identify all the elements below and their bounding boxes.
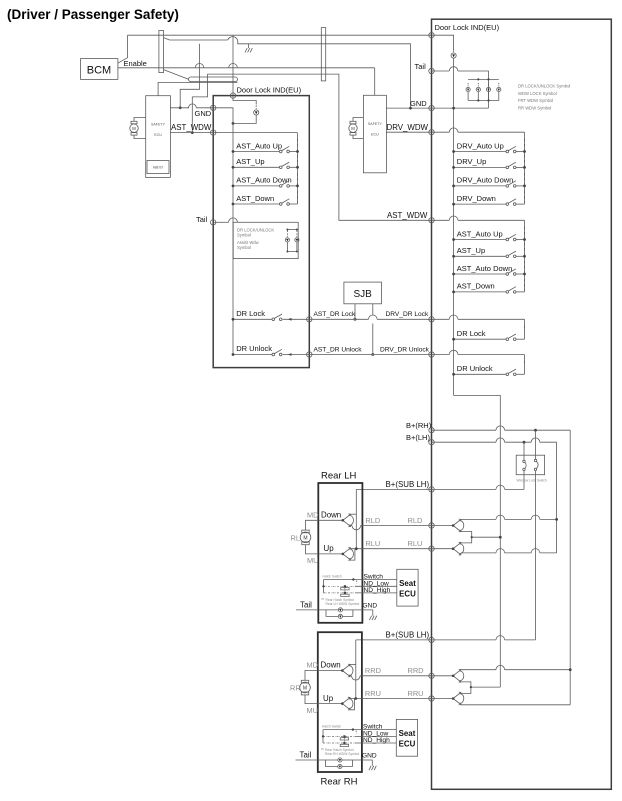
connector B+(SUB LH) first [429, 487, 434, 492]
ground G3 [369, 762, 376, 771]
switch AST_Up [279, 162, 289, 169]
wire Down row RH [318, 670, 343, 672]
svg-text:WDW LOCK Symbol: WDW LOCK Symbol [518, 91, 557, 96]
svg-text:RRD: RRD [365, 666, 381, 675]
svg-text:A88 B7: A88 B7 [153, 166, 164, 170]
switch AST_Up (right) [506, 251, 516, 257]
wire ND_High row RH [323, 742, 355, 744]
svg-text:Symbol: Symbol [237, 233, 251, 238]
detent dashes DRV bar [524, 139, 526, 203]
wire B+(LH) drop to rear LH [556, 442, 558, 553]
wire right switch bar (AST group) [297, 133, 299, 204]
wire BCM to top bus (diagonal riser) [118, 35, 128, 63]
svg-text:DR LOCK/UNLOCK Symbol: DR LOCK/UNLOCK Symbol [518, 84, 570, 89]
wire Switch row RH [323, 729, 396, 731]
svg-text:ECU: ECU [154, 133, 162, 137]
svg-text:AST_DR Lock: AST_DR Lock [314, 311, 356, 318]
svg-text:AST_Up: AST_Up [457, 246, 485, 255]
horn connector Down RH [341, 664, 353, 677]
passenger door module box (Door Lock IND EU, left) [213, 96, 309, 368]
connector RRD [429, 673, 434, 678]
wire DRV lock feed line [432, 318, 450, 320]
svg-text:B+(RH): B+(RH) [406, 421, 432, 430]
wire GND out to chassis RH [352, 760, 372, 762]
symbol lamp group bottom bar [468, 100, 499, 102]
wire Tail into symbol block [213, 221, 228, 223]
Seat ECU box LH [397, 569, 418, 606]
connector DRV_DR Unlock [429, 352, 434, 357]
svg-text:GND: GND [363, 602, 378, 609]
wire DRV unlock feed line [432, 354, 450, 356]
wire hop DRV_WDW over ground bar [449, 128, 458, 132]
svg-text:DRV_Auto Down: DRV_Auto Down [457, 176, 514, 185]
svg-text:AST_Auto Up: AST_Auto Up [457, 229, 503, 238]
wire bar to lower section [454, 395, 501, 687]
lamp tail LH 2 [338, 614, 342, 618]
horn connector Up RH [341, 697, 353, 710]
junction dot GND/line B riser [409, 107, 412, 110]
svg-text:Rear LH WDW Symbol: Rear LH WDW Symbol [326, 602, 360, 606]
svg-text:DRV_DR Lock: DRV_DR Lock [386, 311, 429, 318]
svg-text:DR Unlock: DR Unlock [236, 344, 272, 353]
svg-text:AST_DR Unlock: AST_DR Unlock [314, 346, 363, 353]
svg-text:Seat: Seat [399, 729, 416, 738]
svg-text:AST_Auto Up: AST_Auto Up [236, 141, 282, 150]
horn connector RRU [452, 692, 464, 705]
svg-text:DRV_Up: DRV_Up [457, 157, 486, 166]
wire motor up feed RH [305, 695, 318, 704]
svg-text:SJB: SJB [354, 289, 373, 300]
svg-text:Door Lock IND(EU): Door Lock IND(EU) [435, 23, 500, 32]
wire RRU from horn upper branch [350, 698, 431, 700]
svg-text:B+(LH): B+(LH) [406, 433, 430, 442]
wire GND out to chassis LH [353, 610, 373, 612]
ground G1 on line B [245, 44, 252, 53]
wire DR Lock to connector with direction arrow [283, 318, 310, 320]
connector capsule C3 (in-line connector, horizontal) [189, 77, 238, 82]
wire Up lower branch loop [351, 549, 355, 560]
svg-text:GND: GND [195, 109, 212, 118]
svg-text:Hatch Switch: Hatch Switch [322, 724, 341, 728]
safety ECU RH box [363, 95, 386, 173]
svg-text:ND_High: ND_High [364, 587, 391, 594]
horn connector Down LH [342, 514, 354, 527]
svg-text:RRU: RRU [408, 689, 424, 698]
window motor rear LH [300, 530, 311, 545]
switch DR Lock (right) [506, 334, 516, 341]
svg-text:DR Unlock: DR Unlock [457, 364, 493, 373]
connector GND right [429, 105, 434, 110]
horn connector RRD [452, 669, 464, 682]
svg-text:ND_High: ND_High [363, 737, 390, 744]
switch AST_Auto Down (right) [506, 269, 516, 276]
wire RRD into module [432, 675, 454, 677]
wire B+(LH) distribution [432, 441, 497, 443]
wire top bus line A to driver door module [128, 34, 432, 36]
wire hop Tail over ground bar [449, 67, 458, 71]
window motor M1 (driver) [130, 118, 146, 139]
wire DR Unlock row [233, 354, 272, 356]
wire Down upper branch to B+ bar RH [350, 663, 356, 665]
svg-text:(Driver / Passenger Safety): (Driver / Passenger Safety) [7, 7, 179, 22]
wire DR Unlock row (right) [454, 373, 506, 375]
wire Up row LH [318, 553, 343, 555]
wire RLD lower branch jog [461, 532, 472, 543]
switch AST_Auto Up (right) [506, 234, 516, 241]
wire hop on Enable over V1 [229, 64, 238, 68]
wire Up row RH [318, 703, 343, 705]
wire ND_Low row LH [324, 585, 356, 587]
switch DRV_Auto Down [506, 181, 516, 188]
svg-text:Down: Down [321, 510, 341, 519]
connector AST_WDW [211, 130, 216, 135]
svg-text:RRD: RRD [408, 666, 424, 675]
svg-text:Door Lock IND(EU): Door Lock IND(EU) [237, 86, 302, 95]
switch AST_Auto Down [279, 181, 289, 188]
svg-text:DRV_WDW: DRV_WDW [387, 123, 429, 132]
wire RRD from horn lower branch [350, 675, 351, 677]
connector top feed [429, 33, 434, 38]
svg-text:FRT WDW Symbol: FRT WDW Symbol [518, 98, 553, 103]
rear LH door box [318, 483, 362, 623]
connector bar C2 (in-line connector, right) [321, 28, 325, 81]
wire AST_WDW to right switch bar [213, 132, 297, 134]
switch DRV_Up [506, 162, 516, 169]
svg-text:AST_WDW: AST_WDW [387, 211, 428, 220]
detent dash unlock [524, 361, 526, 366]
connector bar C1 (in-line connector, left) [159, 31, 164, 73]
wire hop AST_WDW over ground bar [449, 216, 458, 220]
lamp FRT WDW symbol [486, 83, 490, 92]
wire rear RH B+ bar [355, 640, 357, 699]
svg-text:ECU: ECU [371, 133, 379, 137]
svg-text:Window Lock Switch: Window Lock Switch [517, 479, 547, 483]
indicator lamp L2 [451, 48, 456, 58]
wire main ground bar of driver module [432, 35, 454, 50]
svg-text:MD: MD [307, 510, 319, 519]
connector B+(SUB LH) second [429, 637, 434, 642]
svg-text:Enable: Enable [124, 59, 147, 68]
connector RRU [429, 696, 434, 701]
connector Tail [211, 220, 216, 225]
svg-text:DR Lock: DR Lock [457, 329, 486, 338]
wire lamp feed inside module [233, 96, 256, 105]
svg-text:RR: RR [290, 684, 301, 693]
wire driver ECU top feed [158, 82, 237, 95]
window lock switch box [516, 455, 544, 475]
wire AST_WDW from driver ECU [170, 132, 213, 134]
switch DRV_Auto Up [506, 146, 516, 153]
wire Enable from BCM [118, 67, 375, 69]
wire diagonal C1 to capsule C3 [164, 70, 189, 80]
svg-text:RLU: RLU [365, 539, 380, 548]
wire SJB unlock pin [372, 304, 374, 315]
svg-text:Down: Down [321, 661, 341, 670]
wire Switch row LH [324, 579, 397, 581]
wire DRV_WDW internal to switch bar [432, 131, 450, 133]
wire Down upper branch to B+ bar [351, 513, 357, 515]
wire RRD lower branch jog [461, 682, 471, 694]
wire RLD into module [432, 525, 454, 527]
wire motor down feed LH [306, 520, 319, 530]
wire bus line B from connector C1 [164, 38, 228, 40]
wire GND from passenger ECU to driver door module [386, 107, 431, 109]
window motor M2 (passenger) [349, 118, 364, 139]
connector RLD [429, 523, 434, 528]
svg-text:AST_Auto Down: AST_Auto Down [236, 176, 291, 185]
connector AST_WDW right [429, 218, 434, 223]
wire AST_Up row [233, 166, 279, 168]
svg-text:m: m [321, 747, 324, 751]
wire RLU into module [432, 548, 454, 550]
svg-text:Hatch Switch: Hatch Switch [323, 574, 342, 578]
wire switch block left bar RH [322, 730, 324, 743]
wire hop on Enable over V2 [195, 64, 204, 68]
wire RRU lower branch to B+(RH) drop [461, 704, 570, 706]
wire bus line B right portion [238, 44, 411, 108]
wire symbol lamps top bar [287, 229, 297, 231]
svg-text:Tail: Tail [196, 215, 208, 224]
wire RLU lower branch to B+(LH) drop [461, 552, 496, 554]
svg-text:RLU: RLU [408, 539, 423, 548]
wire B+(RH) drop to rear RH [569, 430, 571, 705]
wire lamp loop RH [326, 760, 338, 767]
lamp symbol S1 [285, 233, 289, 242]
svg-text:Seat: Seat [399, 579, 416, 588]
svg-text:Tail: Tail [415, 62, 427, 71]
wire RLD from horn lower branch [351, 525, 352, 527]
connector on top edge [230, 93, 235, 98]
wire jog tap to common bar [472, 536, 501, 538]
svg-text:m: m [322, 597, 325, 601]
svg-text:Tail: Tail [300, 600, 312, 609]
wire B+(SUB LH) second from rear RH [356, 639, 496, 641]
connector AST_DR Lock [307, 317, 312, 322]
svg-text:SAFETY: SAFETY [151, 123, 166, 127]
switch window lock RH [534, 430, 538, 640]
svg-text:MU: MU [307, 556, 319, 565]
wire Tail illumination row RH [296, 759, 338, 761]
wire hop on GND over AST_WDW riser [189, 104, 197, 108]
wire jog tap to common bar end [471, 686, 500, 688]
wire AST_Auto Down row (right) [454, 273, 506, 275]
wire DR Unlock to connector with direction arrow [283, 354, 310, 356]
svg-text:Tail: Tail [300, 750, 312, 759]
wire RLD upper branch to B+(LH) [461, 518, 496, 520]
wire AST_Auto Up row [233, 151, 279, 153]
switch DR Unlock (right) [506, 369, 516, 376]
svg-text:BCM: BCM [87, 65, 111, 77]
rear RH door box [318, 632, 362, 772]
wire AST_Down row (right) [454, 291, 506, 293]
wire Enable drop to passenger safety ECU [374, 68, 376, 96]
svg-text:AST_Down: AST_Down [457, 282, 495, 291]
switch AST_Down (right) [506, 287, 516, 294]
svg-text:ECU: ECU [399, 590, 416, 599]
wire GND continuation [196, 107, 213, 109]
connector B+(RH) [429, 428, 434, 433]
svg-text:Rear RH: Rear RH [321, 777, 358, 788]
wire ND_High row LH [324, 592, 356, 594]
svg-text:AST_Auto Down: AST_Auto Down [457, 264, 512, 273]
wire DRV switch bar [524, 132, 526, 204]
svg-text:AST_Up: AST_Up [236, 157, 264, 166]
wire switch block left bar LH [323, 580, 325, 593]
wire lock net between door modules [309, 318, 368, 320]
BCM module box [81, 59, 118, 80]
wire AST_WDW internal to switch bar [432, 219, 450, 221]
wire DR Lock row (right) [454, 338, 506, 340]
lamp WDW LOCK symbol [476, 83, 480, 92]
svg-text:B+(SUB LH): B+(SUB LH) [386, 480, 430, 489]
connector AST_DR Unlock [307, 352, 312, 357]
svg-text:RL: RL [291, 534, 300, 543]
wire Tail right internal [432, 70, 450, 72]
wire DRV_Auto Up row [454, 151, 506, 153]
lamp DR LOCK/UNLOCK symbol [466, 83, 470, 92]
switch DR Lock [272, 314, 282, 321]
svg-text:DR Lock: DR Lock [236, 309, 265, 318]
wire hop on line B over node V1 [228, 37, 238, 44]
svg-text:RLD: RLD [365, 516, 380, 525]
wire lamp to ground bar [233, 115, 256, 123]
lamp symbol S2 [295, 233, 299, 242]
svg-text:DRV_DR Unlock: DRV_DR Unlock [380, 346, 430, 353]
svg-text:DRV_Auto Up: DRV_Auto Up [457, 141, 504, 150]
junction dot V2/GND [179, 106, 182, 109]
wire AST_Up row (right) [454, 255, 506, 257]
wire AST_Auto Down row [233, 185, 279, 187]
wire DR Lock row [233, 318, 272, 320]
detent dashes on bar [297, 139, 299, 203]
wire SJB lock pin [354, 304, 356, 320]
switch window lock LH [523, 442, 526, 489]
wire DRV_Up row [454, 166, 506, 168]
wire AST switch bar [524, 220, 526, 292]
wire AST_Down row [233, 203, 279, 205]
wire ground bar (left common bar) [213, 108, 233, 355]
wire RRU into module [432, 698, 454, 700]
wire ND_Low row RH [323, 735, 355, 737]
symbol lamp group top bar [468, 78, 499, 80]
svg-text:GND: GND [362, 752, 377, 759]
wire Down row LH [318, 519, 343, 521]
junction dot lamp/ground bar [232, 122, 235, 125]
lamp tail RH 1 [338, 758, 342, 762]
svg-text:B+(SUB LH): B+(SUB LH) [386, 631, 430, 640]
wire Up lower branch loop RH [350, 699, 354, 710]
svg-text:Rear LH: Rear LH [321, 471, 357, 482]
junction dot on AST_WDW wire [191, 131, 194, 134]
connector RLU [429, 546, 434, 551]
SJB box [344, 282, 382, 304]
svg-text:Rear RH WDW Symbol: Rear RH WDW Symbol [325, 752, 360, 756]
svg-text:RLD: RLD [408, 516, 423, 525]
window motor rear RH [300, 680, 311, 695]
wire RLU from horn upper branch [351, 548, 432, 550]
svg-text:ECU: ECU [399, 740, 416, 749]
wire rear LH B+ bar [355, 489, 357, 548]
switch AST_Down [279, 199, 289, 206]
svg-text:RR WDW Symbol: RR WDW Symbol [518, 105, 551, 110]
wire Tail illumination row LH [296, 609, 338, 611]
indicator lamp L1 [254, 105, 259, 115]
svg-text:MD: MD [307, 661, 319, 670]
horn connector RLU [452, 542, 464, 555]
wire GND right internal [432, 107, 489, 109]
lamp RR WDW symbol [497, 83, 501, 92]
wire GND from driver ECU to passenger door module [170, 107, 189, 109]
wire hop lock over SJB unlock pin [369, 315, 378, 319]
svg-text:DRV_Down: DRV_Down [457, 194, 496, 203]
wire DRV_Down row [454, 203, 506, 205]
driver door module box (Door Lock IND EU, right) [432, 19, 612, 789]
wire B+(SUB LH) from rear LH to window lock switch [356, 488, 496, 490]
wire symbol lamps bottom bar [287, 242, 297, 252]
wire motor up feed LH [306, 545, 319, 554]
wire hop lock feed over ground bar [449, 315, 458, 319]
wire RRD upper branch to B+(RH) drop [461, 669, 496, 671]
wire B+(RH) distribution [432, 429, 497, 431]
svg-text:Up: Up [323, 694, 334, 703]
switch DR Unlock [272, 349, 282, 356]
svg-text:RRU: RRU [365, 689, 381, 698]
svg-text:SAFETY: SAFETY [368, 122, 383, 126]
connector B+(LH) [429, 440, 434, 445]
switch DRV_Down [506, 199, 516, 206]
svg-text:AST_Down: AST_Down [236, 194, 274, 203]
wire DRV_Auto Down row [454, 185, 506, 187]
wire DRV_WDW from passenger ECU [386, 131, 431, 133]
connector GND [211, 105, 216, 110]
horn connector RLD [452, 519, 464, 532]
wire AST_WDW route to passenger door module [192, 74, 431, 220]
ground G2 [369, 612, 376, 621]
wire motor down feed RH [305, 671, 318, 681]
connector Tail right [429, 68, 434, 73]
svg-text:MU: MU [307, 706, 319, 715]
lamp tail LH 1 [338, 608, 342, 612]
connector DRV_DR Lock [429, 317, 434, 322]
detent dashes AST bar [524, 227, 526, 290]
wire hop Tail over ground bar [229, 218, 238, 222]
svg-text:GND: GND [410, 99, 427, 108]
lamp tail RH 2 [338, 764, 342, 768]
wire unlock net between door modules [309, 354, 431, 356]
svg-text:Symbol: Symbol [237, 245, 251, 250]
switch AST_Auto Up [279, 146, 289, 153]
wire V2 from line B to GND node [180, 44, 199, 108]
detent dash lock [524, 326, 526, 331]
wire V1 from line A to door lock IND feed [232, 35, 234, 95]
Seat ECU box RH [396, 719, 417, 756]
safety ECU LH box [146, 96, 171, 178]
svg-text:Up: Up [324, 544, 335, 553]
horn connector Up LH [342, 548, 354, 561]
symbol illumination block [233, 222, 298, 258]
wire hop unlock feed over ground bar [449, 350, 458, 354]
wire AST_Auto Up row (right) [454, 239, 506, 241]
svg-text:AST_WDW: AST_WDW [171, 123, 212, 132]
wire lamp loop LH [326, 610, 338, 617]
connector DRV_WDW [429, 130, 434, 135]
